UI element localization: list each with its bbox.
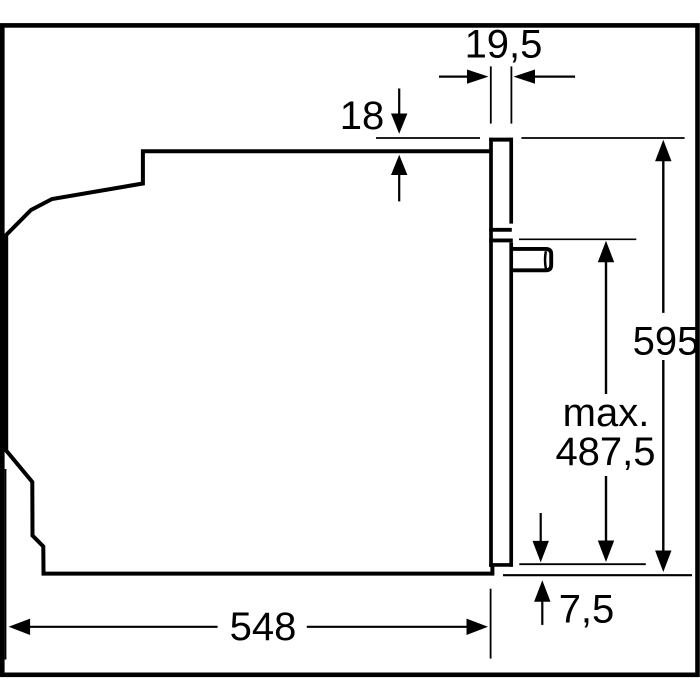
extension line right (x=511.4) [510,66,512,123]
extension line left (x=5.5) [5,469,7,660]
svg-text:7,5: 7,5 [559,588,615,632]
down arrowhead [598,541,614,563]
down arrowhead at bottom [655,551,671,573]
reference thin line at y=138 left of door [376,137,480,139]
up arrowhead [391,155,407,175]
door left edge [489,138,493,567]
dimension 548 [6,469,491,660]
door seam bar upper [489,228,512,232]
handle [511,249,551,270]
down arrowhead [533,541,549,563]
left arrowhead [9,619,31,635]
door top edge [489,138,513,142]
extension line left (x=490.8) [490,66,492,123]
door right edge lower [509,243,513,567]
shaft upper segment [662,160,664,313]
dimension 7,5 [503,513,692,632]
handle end-cap inner line [544,251,547,269]
up arrowhead at top [655,140,671,162]
reference thin line at y=239.3 [519,238,636,240]
shaft upper segment [605,261,607,394]
reference thin line door bottom level y=564.2 [519,563,646,565]
right arrowhead [514,70,536,84]
left arrow line [439,75,468,77]
right arrowhead [467,619,489,635]
dimension line left segment [29,626,218,628]
door right edge upper [509,138,513,224]
svg-text:595: 595 [633,319,700,363]
svg-text:18: 18 [340,94,385,138]
dimension max. 487,5 [519,239,656,562]
left arrowhead [467,70,489,84]
oven body outline [6,151,492,573]
down arrow shaft [540,513,542,541]
svg-text:487,5: 487,5 [555,430,655,474]
dimension 19,5 [439,23,575,124]
shaft lower segment [605,476,607,541]
dimension line right segment [307,626,467,628]
up arrow shaft [398,174,400,201]
extension line right (x=490.6) [490,589,492,659]
svg-text:19,5: 19,5 [465,23,543,67]
door panel outline [489,138,513,567]
dimension 18 [340,89,685,202]
up arrow shaft [541,600,543,625]
dimension 595 [633,140,700,572]
svg-text:548: 548 [230,605,297,649]
up arrowhead [598,241,614,262]
shaft lower segment [662,360,664,552]
down arrowhead [391,114,407,134]
reference thin line at y=138 right of door [521,137,684,139]
svg-text:max.: max. [563,391,650,435]
door bottom edge [489,563,513,567]
right arrow line [535,75,575,77]
down arrow shaft [398,89,400,116]
reference thin line body bottom level y=575.2 [503,574,692,576]
door seam bar lower [489,238,513,242]
up arrowhead [534,580,550,602]
